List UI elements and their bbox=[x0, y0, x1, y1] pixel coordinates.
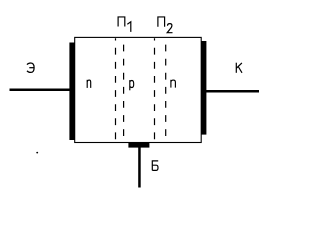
emitter lead wire bbox=[10, 89, 71, 92]
label К collector bbox=[236, 63, 242, 73]
label Э emitter bbox=[27, 63, 34, 72]
label Б base bbox=[152, 161, 158, 171]
label П1 subscript 1 bbox=[127, 22, 131, 32]
collector lead wire bbox=[206, 90, 259, 93]
junction 1 dashed line b bbox=[123, 38, 125, 142]
stray dot mark bbox=[36, 152, 38, 154]
junction 2 dashed line a bbox=[154, 38, 156, 142]
label П2 junction 2 bbox=[158, 17, 165, 27]
junction 1 dashed line a bbox=[115, 38, 117, 142]
label П1 junction 1 bbox=[118, 17, 125, 27]
label n collector region bbox=[171, 80, 176, 88]
base contact bar bbox=[128, 142, 149, 147]
base lead wire bbox=[138, 147, 141, 188]
collector contact bar bbox=[201, 41, 206, 135]
label П2 subscript 2 bbox=[167, 24, 172, 33]
label p base region bbox=[130, 80, 134, 90]
junction 2 dashed line b bbox=[165, 38, 167, 142]
label n emitter region bbox=[87, 80, 91, 88]
emitter contact bar bbox=[69, 43, 74, 141]
semiconductor body rectangle bbox=[75, 37, 202, 142]
